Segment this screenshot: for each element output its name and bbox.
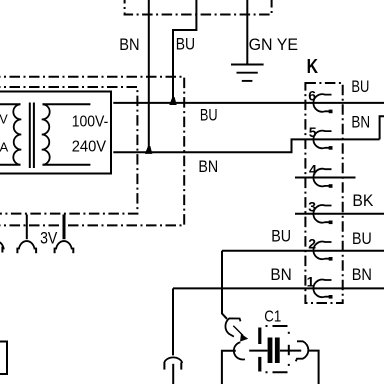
socket 45deg: [225, 318, 240, 336]
bell socket 1 dome: [19, 241, 35, 249]
svg-text:BU: BU: [200, 105, 218, 124]
top device dash-dot box: [125, 0, 272, 15]
pin 2 contact: [313, 242, 331, 260]
svg-text:BU: BU: [176, 35, 195, 54]
svg-text:BN: BN: [351, 112, 370, 131]
pin 3 contact: [313, 205, 331, 223]
transformer secondary top stub: [43, 103, 91, 105]
bell socket 2 stub: [63, 215, 66, 240]
bottom loop wire mid: [249, 350, 267, 352]
bell socket fragment at left edge: [0, 241, 4, 249]
pin 2 wire BU: [222, 250, 384, 252]
pin 4 stub wire: [295, 177, 356, 179]
outer power-supply dash-dot box: [0, 77, 184, 226]
bell socket 1 stub: [26, 215, 28, 240]
svg-text:2: 2: [308, 235, 316, 251]
svg-text:6: 6: [308, 87, 316, 103]
C1 module dash-dot box bottom border: [266, 371, 291, 373]
wire BN top vertical: [148, 0, 150, 151]
pin 4 contact: [313, 169, 331, 187]
svg-text:100V-: 100V-: [72, 114, 109, 131]
connector K dash-dot box: [305, 83, 342, 303]
svg-text:A: A: [0, 140, 9, 155]
svg-text:3: 3: [308, 198, 316, 214]
transformer primary lead: [0, 103, 21, 105]
pin 6 contact: [313, 94, 331, 112]
wire BN horizontal with step to pin 5: [113, 139, 379, 152]
bottom socket legs: [163, 362, 165, 369]
svg-text:GN YE: GN YE: [249, 35, 298, 54]
pin 5 contact: [313, 131, 331, 149]
junction BU: [169, 97, 176, 105]
svg-text:K: K: [307, 56, 319, 78]
svg-text:BN: BN: [119, 35, 139, 54]
svg-text:BN: BN: [270, 265, 291, 284]
C1 module dash-dot box left bars: [258, 328, 261, 345]
svg-text:BN: BN: [198, 157, 218, 176]
wire GN-YE vertical: [246, 0, 248, 65]
curl arc of C1 left lead: [234, 342, 245, 359]
bottom loop right wire: [308, 351, 318, 384]
bottom plug pin: [172, 364, 174, 384]
svg-text:BU: BU: [352, 229, 372, 248]
svg-text:5: 5: [309, 124, 317, 140]
pin 1 contact: [313, 280, 331, 298]
pin 1 wire BN: [173, 287, 384, 289]
svg-text:BU: BU: [351, 77, 369, 96]
wire BU top vertical with step: [173, 0, 196, 103]
svg-text:240V: 240V: [72, 139, 107, 156]
wire BU horizontal to pin 6 and beyond: [113, 102, 384, 104]
svg-text:BK: BK: [352, 191, 374, 210]
wire BN right riser: [380, 116, 384, 139]
transformer primary winding: [13, 104, 21, 165]
junction BN: [145, 146, 152, 154]
pin 1 drop wire: [172, 288, 174, 355]
small box at left edge bottom: [0, 342, 7, 375]
bottom socket dome: [164, 357, 182, 363]
C1 module dash-dot box right border: [288, 332, 290, 334]
svg-text:4: 4: [309, 162, 317, 178]
C1 module dash-dot box top border: [266, 325, 289, 327]
svg-text:3V: 3V: [40, 230, 57, 248]
capacitor C1 plates: [268, 338, 273, 364]
transformer secondary winding: [42, 104, 50, 165]
svg-text:BN: BN: [352, 265, 372, 284]
bottom loop wire right of plates: [280, 350, 301, 352]
transformer secondary bottom stub: [43, 164, 91, 166]
transformer T1 box: [0, 92, 111, 174]
svg-text:V: V: [0, 113, 8, 127]
pin 3 wire: [295, 213, 384, 215]
plug arrow into socket: [233, 326, 243, 336]
ground: [231, 65, 264, 81]
svg-text:C1: C1: [264, 309, 281, 326]
inner transformer-module dash-dot box: [0, 87, 137, 214]
bell socket 1 legs: [16, 248, 18, 254]
pin 2 drop wire: [222, 251, 227, 319]
bell socket 2 legs: [54, 248, 56, 254]
right socket of loop: [296, 341, 309, 361]
svg-text:1: 1: [307, 273, 315, 289]
svg-text:BU: BU: [271, 227, 291, 246]
bottom loop left wire: [222, 351, 236, 384]
bell socket 2 dome: [56, 241, 72, 249]
transformer primary bottom lead: [0, 164, 21, 166]
transformer core: [29, 103, 31, 169]
